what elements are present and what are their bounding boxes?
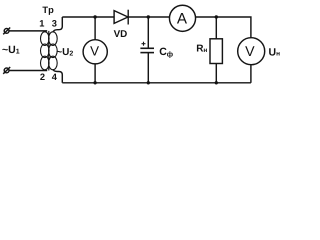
resistor R lead bottom	[215, 64, 217, 83]
wire input bottom	[9, 70, 47, 72]
svg-text:~U2: ~U2	[56, 47, 73, 58]
junction node top V1	[93, 15, 96, 18]
voltmeter V2	[238, 38, 265, 65]
svg-text:~U1: ~U1	[2, 44, 20, 56]
capacitor C polarity plus	[142, 42, 146, 46]
svg-text:Uн: Uн	[269, 46, 281, 58]
svg-text:A: A	[177, 10, 188, 27]
junction node bottom C	[147, 81, 150, 84]
svg-text:Cф: Cф	[159, 46, 173, 58]
svg-text:3: 3	[52, 18, 57, 28]
wire top rail after diode	[128, 16, 169, 18]
transformer T secondary winding	[49, 32, 58, 70]
svg-text:1: 1	[39, 18, 44, 28]
junction node top C	[147, 15, 150, 18]
capacitor C lead bottom	[147, 53, 149, 83]
wire top rail after ammeter	[196, 17, 251, 38]
resistor R body	[210, 39, 222, 64]
wire secondary top lead	[53, 17, 62, 32]
svg-text:Rн: Rн	[196, 44, 207, 55]
voltmeter V1 branch wire top	[94, 17, 96, 40]
svg-text:V: V	[245, 44, 255, 60]
wire input top	[9, 30, 47, 32]
transformer T primary winding	[41, 31, 50, 71]
terminal input top	[3, 28, 10, 35]
svg-text:V: V	[90, 44, 99, 59]
junction node bottom V1	[93, 81, 96, 84]
voltmeter V2 wire bottom	[250, 65, 252, 83]
wire secondary bottom lead	[53, 69, 62, 83]
svg-text:Tp: Tp	[42, 5, 54, 15]
voltmeter V1 branch wire bottom	[94, 64, 96, 83]
voltmeter V1	[83, 40, 107, 64]
capacitor C plates	[140, 48, 154, 52]
capacitor C lead top	[147, 17, 149, 48]
junction node top R	[215, 15, 218, 18]
diode VD	[114, 10, 128, 25]
resistor R lead top	[215, 17, 217, 39]
svg-text:2: 2	[40, 72, 45, 82]
ammeter A1	[169, 5, 195, 31]
wire top rail	[62, 16, 114, 18]
junction node bottom R	[215, 81, 218, 84]
terminal input bottom	[3, 67, 10, 74]
svg-text:VD: VD	[114, 29, 128, 40]
svg-text:4: 4	[52, 72, 58, 82]
wire bottom rail	[62, 82, 251, 84]
